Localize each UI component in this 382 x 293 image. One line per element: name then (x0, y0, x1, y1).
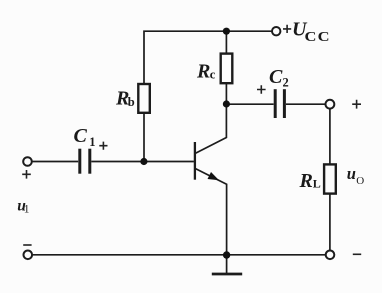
svg-text:2: 2 (283, 75, 289, 89)
svg-text:L: L (313, 176, 321, 190)
svg-text:b: b (128, 95, 135, 109)
svg-text:C: C (74, 125, 88, 147)
svg-text:1: 1 (89, 135, 95, 149)
svg-text:C: C (269, 66, 283, 88)
svg-text:R: R (196, 61, 210, 83)
svg-text:O: O (356, 175, 364, 187)
svg-text:u: u (347, 164, 356, 183)
svg-text:R: R (299, 170, 313, 192)
svg-text:c: c (210, 68, 216, 82)
svg-text:1: 1 (24, 204, 30, 216)
svg-text:CC: CC (305, 29, 331, 45)
